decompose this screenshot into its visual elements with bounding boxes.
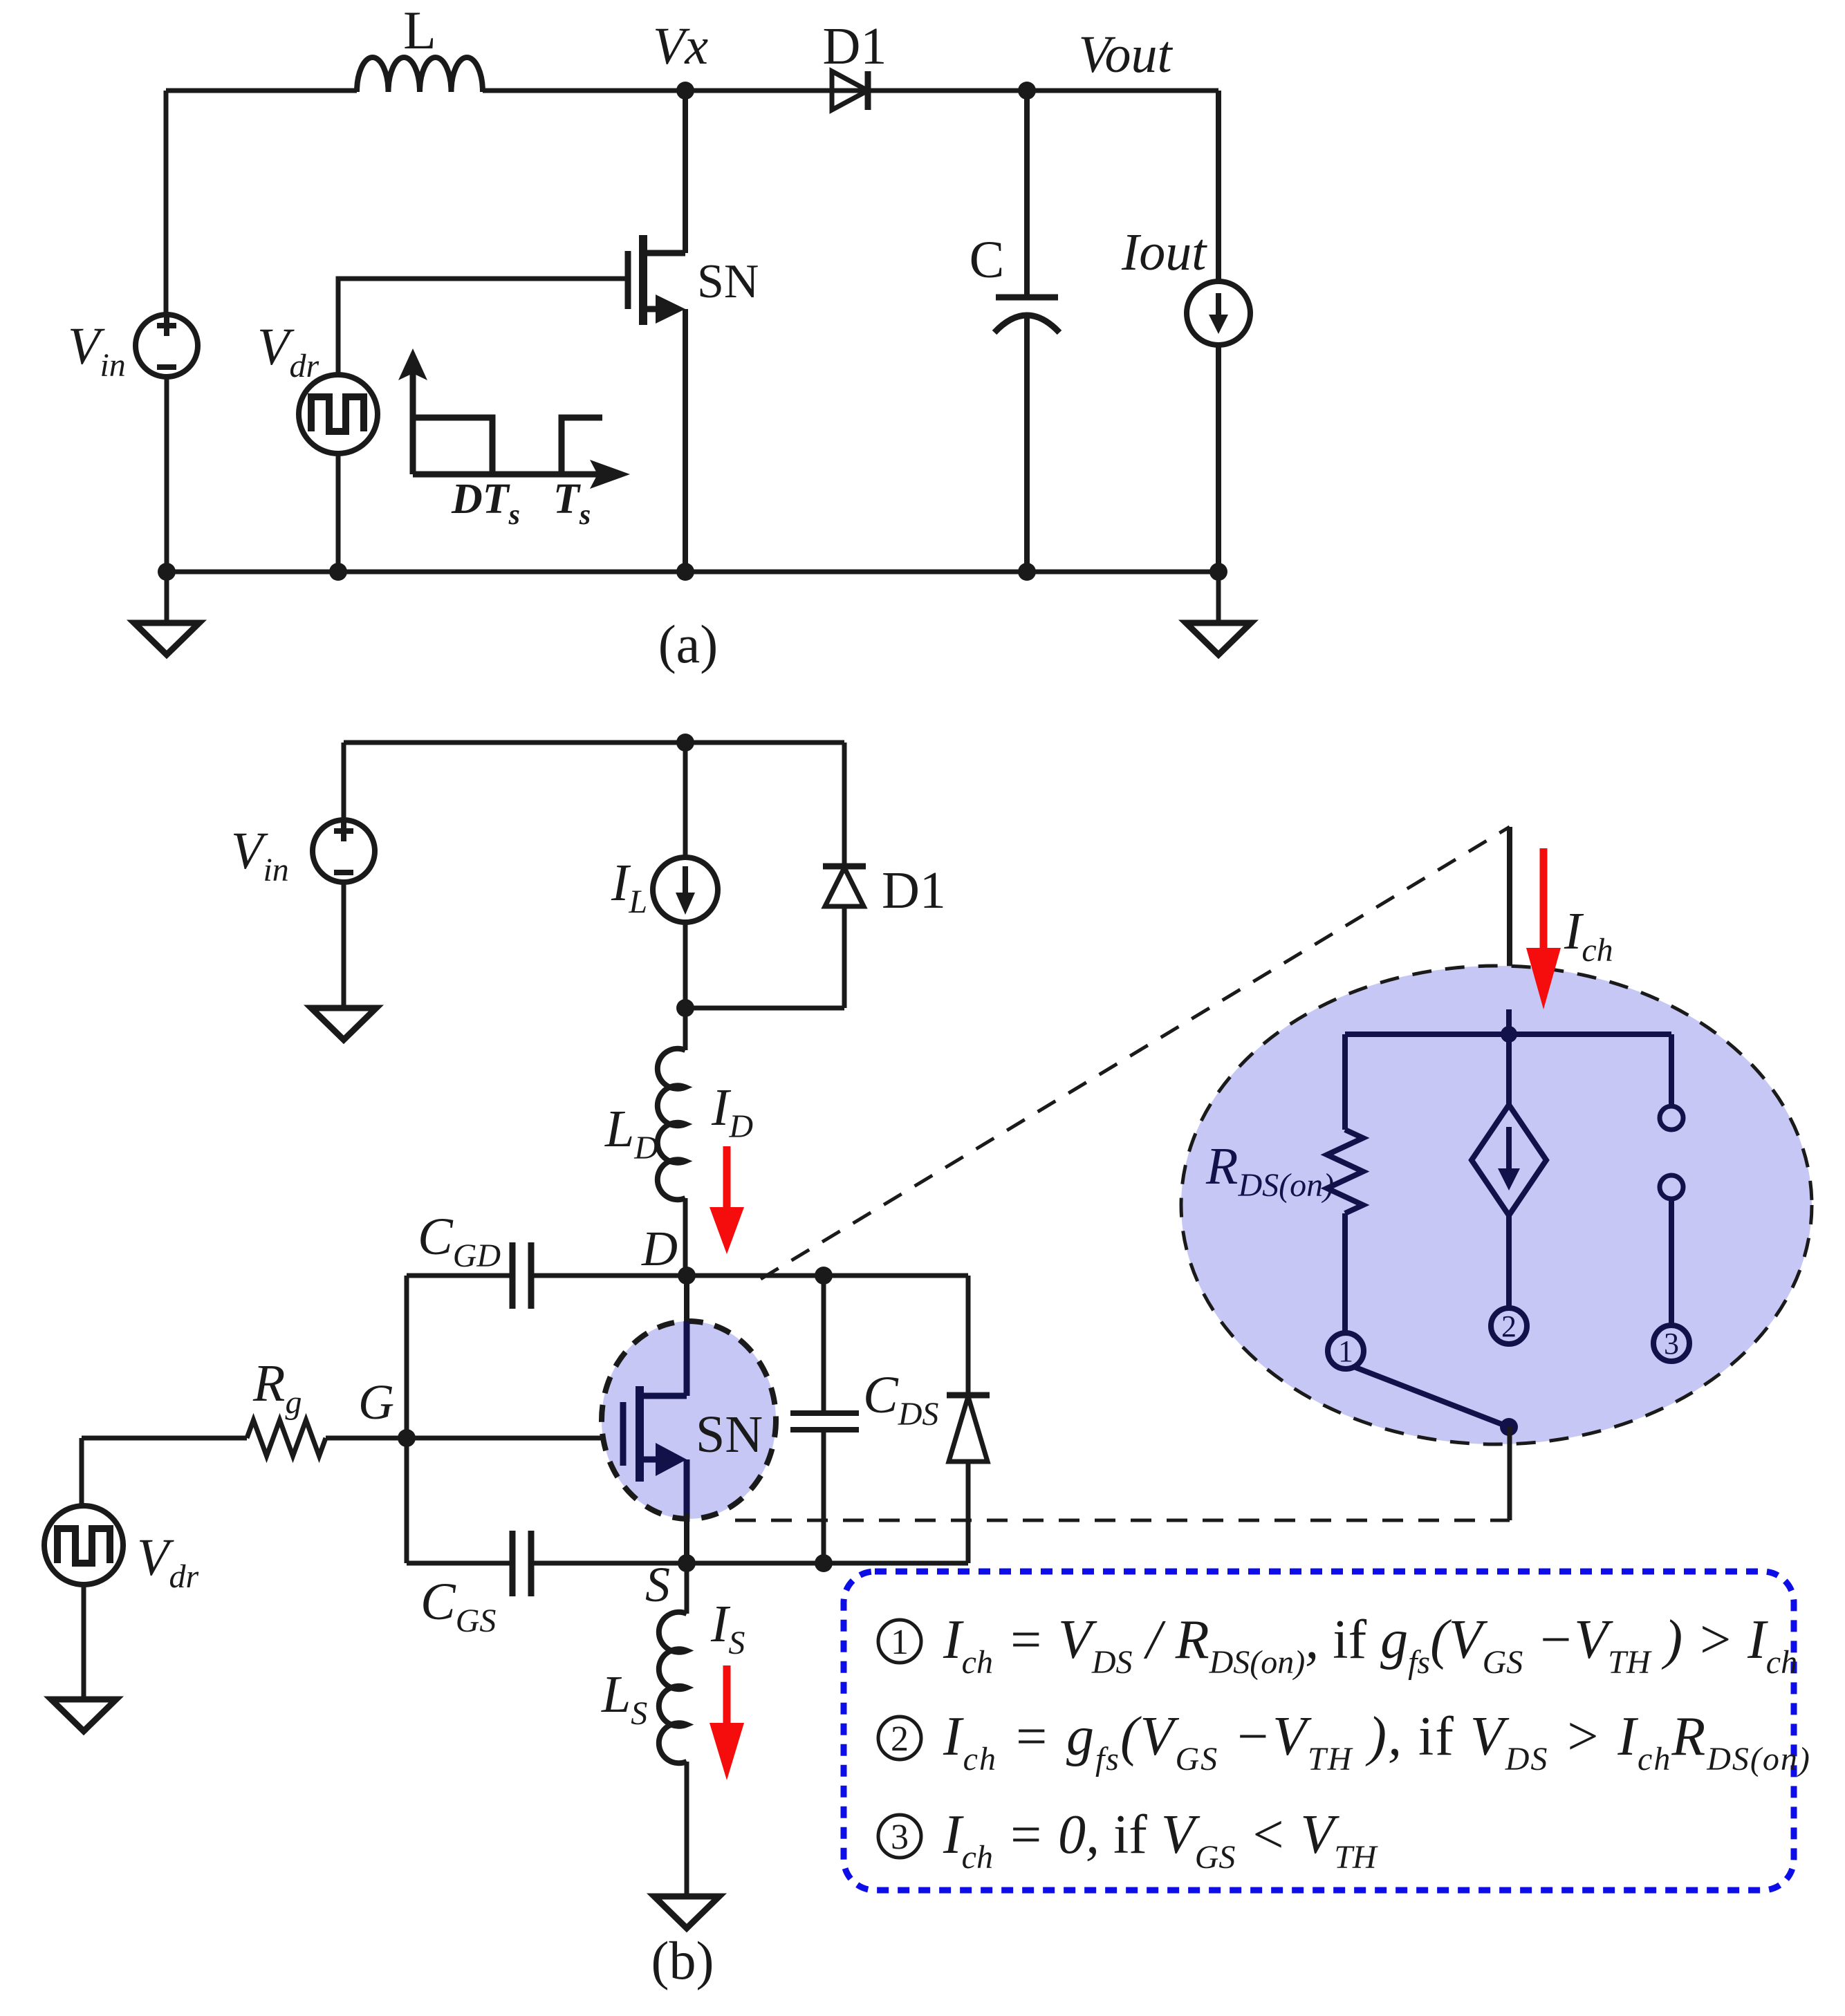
svg-text:Vx: Vx <box>653 17 708 75</box>
svg-text:CDS: CDS <box>863 1366 938 1432</box>
svg-text:S: S <box>645 1557 670 1612</box>
svg-text:SN: SN <box>697 255 759 308</box>
svg-text:D1: D1 <box>823 17 887 75</box>
svg-text:D1: D1 <box>882 861 946 920</box>
svg-text:Ich = gfs(VGS −VTH ), if VDS >: Ich = gfs(VGS −VTH ), if VDS > IchRDS(on… <box>943 1706 1811 1777</box>
svg-text:Vdr: Vdr <box>257 318 319 384</box>
svg-text:ID: ID <box>711 1079 753 1145</box>
svg-text:(b): (b) <box>651 1930 714 1990</box>
svg-text:Iout: Iout <box>1121 223 1207 281</box>
svg-text:Ts: Ts <box>553 476 591 531</box>
svg-text:Vdr: Vdr <box>137 1529 198 1595</box>
svg-text:CGS: CGS <box>420 1573 496 1639</box>
svg-text:Ich = 0, if VGS < VTH: Ich = 0, if VGS < VTH <box>943 1804 1378 1876</box>
svg-text:2: 2 <box>891 1719 909 1759</box>
svg-text:LS: LS <box>601 1665 647 1732</box>
svg-text:3: 3 <box>891 1818 909 1857</box>
svg-text:L: L <box>403 0 436 60</box>
svg-text:C: C <box>970 231 1005 289</box>
svg-text:Vin: Vin <box>231 822 289 888</box>
svg-text:D: D <box>641 1221 678 1276</box>
svg-text:DTs: DTs <box>451 476 520 531</box>
svg-text:LD: LD <box>604 1100 658 1166</box>
svg-text:Ich = VDS / RDS(on), if gfs(VG: Ich = VDS / RDS(on), if gfs(VGS −VTH ) >… <box>943 1609 1797 1681</box>
svg-text:Vin: Vin <box>68 317 126 384</box>
svg-text:IS: IS <box>710 1595 745 1661</box>
svg-text:CGD: CGD <box>418 1208 501 1274</box>
svg-text:Rg: Rg <box>252 1354 302 1421</box>
svg-text:Ich: Ich <box>1564 902 1613 969</box>
svg-text:(a): (a) <box>658 614 718 674</box>
svg-text:SN: SN <box>696 1406 763 1464</box>
svg-text:Vout: Vout <box>1078 26 1173 84</box>
svg-text:G: G <box>358 1374 394 1430</box>
svg-text:2: 2 <box>1501 1309 1517 1343</box>
svg-text:1: 1 <box>1338 1334 1353 1368</box>
svg-text:IL: IL <box>611 854 647 920</box>
svg-text:3: 3 <box>1664 1327 1679 1361</box>
svg-text:1: 1 <box>891 1623 909 1662</box>
